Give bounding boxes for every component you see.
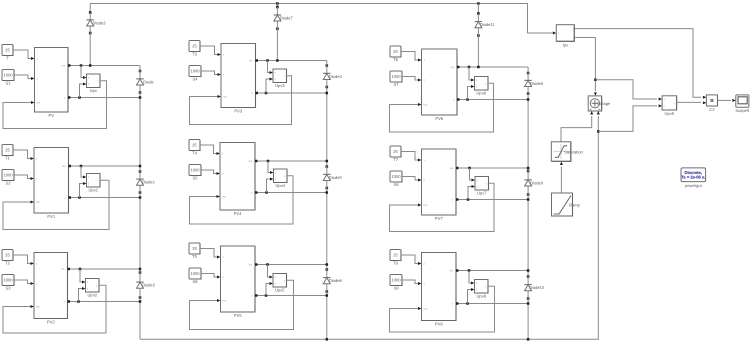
wire PV1 Vm output to bus xyxy=(69,165,141,167)
svg-text:S6: S6 xyxy=(192,279,198,284)
svg-text:Upv: Upv xyxy=(90,88,98,93)
wire e branch to Upv in2 xyxy=(80,84,86,98)
wire S2 to PV1 in2 xyxy=(14,175,33,179)
node bus col3 e2 junction xyxy=(527,198,530,201)
diode Diode6 xyxy=(323,268,342,293)
wire Vm branch to Upv4 in1 xyxy=(268,161,273,173)
svg-text:Diode6: Diode6 xyxy=(329,278,343,283)
svg-text:Ipv: Ipv xyxy=(563,43,569,48)
svg-text:PV5: PV5 xyxy=(234,313,242,318)
constant block T2 (25) xyxy=(2,250,13,266)
wire Vm branch to Upv7 in1 xyxy=(470,168,475,180)
node bus col2 e2 junction xyxy=(326,191,329,194)
node Ipv out2 branch junction xyxy=(594,78,597,81)
svg-text:1000: 1000 xyxy=(391,74,401,79)
PV subsystem PV3 xyxy=(221,44,256,114)
constant block S9 (1000) xyxy=(390,275,402,291)
wire string bus col3 segment 3 xyxy=(527,195,529,277)
diode Diode8 xyxy=(524,72,543,95)
node PV8 Vm port xyxy=(456,269,459,272)
wire e branch to Upv4 in2 xyxy=(267,179,273,193)
svg-text:Um: Um xyxy=(36,306,40,309)
node PV1 e branch xyxy=(78,196,81,199)
wire Diode7 top stub xyxy=(276,4,278,8)
svg-text:T5: T5 xyxy=(192,254,198,259)
wire Voltage bottom to bus junction xyxy=(597,116,599,131)
svg-text:1000: 1000 xyxy=(391,174,401,179)
wire Vm branch to Upv6 in1 xyxy=(469,67,474,80)
node PV6 e branch xyxy=(466,98,469,101)
svg-text:C2: C2 xyxy=(709,107,715,112)
wire e branch to Upv1 in2 xyxy=(80,184,86,198)
wire top positive bus to Ipv xyxy=(90,4,552,34)
node PV8 e port xyxy=(456,302,459,305)
constant block S4 (1000) xyxy=(189,66,201,82)
constant block S8 (1000) xyxy=(390,171,402,187)
node PV6 e port xyxy=(457,98,460,101)
node bus col1 e1 junction xyxy=(139,96,142,99)
subsystem Upv9 xyxy=(662,96,677,116)
current measurement subsystem Ipv xyxy=(556,25,575,48)
svg-text:T1: T1 xyxy=(5,156,11,161)
wire e branch to Upv5 in2 xyxy=(266,284,272,296)
svg-text:PV3: PV3 xyxy=(234,109,242,114)
svg-text:Scope5: Scope5 xyxy=(735,108,750,113)
svg-text:Vm: Vm xyxy=(62,165,66,168)
wire Upv5 output feedback to PV5 Um xyxy=(190,280,294,329)
diode Diode4 xyxy=(323,64,342,88)
wire T2 to PV2 in1 xyxy=(13,255,33,264)
svg-text:S8: S8 xyxy=(393,182,399,187)
wire PV e output to bus xyxy=(68,97,140,99)
constant block S6 (1000) xyxy=(189,268,201,284)
node bus col2 e1 junction xyxy=(326,92,329,95)
wire Vm branch to Upv3 in1 xyxy=(268,61,273,73)
svg-text:S2: S2 xyxy=(5,181,11,186)
PV subsystem PV5 xyxy=(221,246,256,318)
svg-text:25: 25 xyxy=(192,44,197,49)
wire PV8 Vm output to bus xyxy=(456,270,528,272)
wire branch to Upv9 in2 xyxy=(598,106,657,131)
svg-text:25: 25 xyxy=(192,246,197,251)
constant block S1 (1000) xyxy=(2,70,14,86)
wire Vm branch to Upv5 in1 xyxy=(268,265,273,278)
node PV3 e branch xyxy=(265,92,268,95)
node bus col1 vm2 junction xyxy=(139,165,142,168)
wire Saturation output to Voltage xyxy=(561,116,592,142)
measurement block Upv7 xyxy=(475,177,489,196)
wire e branch to Upv6 in2 xyxy=(468,87,474,100)
measurement block Upv6 xyxy=(475,77,489,96)
node PV6 Vm port xyxy=(457,66,460,69)
svg-text:1000: 1000 xyxy=(3,173,13,178)
wire Diode3 to PV Vm node xyxy=(89,33,91,66)
scope block Scope5 xyxy=(735,95,750,113)
constant block T7 (25) xyxy=(390,146,401,162)
node PV5 e port xyxy=(255,294,258,297)
node PV7 e branch xyxy=(467,198,470,201)
constant block T8 (25) xyxy=(390,250,401,266)
wire string bus col3 segment 2 xyxy=(527,94,529,172)
node bus col1 e3 junction xyxy=(139,300,142,303)
svg-text:25: 25 xyxy=(5,48,10,53)
wire Diode7 to PV3 Vm node xyxy=(276,29,278,61)
svg-text:Um: Um xyxy=(424,308,428,311)
wire string bus col1 segment 3 xyxy=(139,193,141,273)
constant block S5 (1000) xyxy=(189,165,201,181)
svg-text:Upv6: Upv6 xyxy=(476,90,486,95)
wire Upv9 output to C2 in2 xyxy=(677,101,701,103)
svg-text:S1: S1 xyxy=(5,81,11,86)
svg-text:1000: 1000 xyxy=(190,69,200,74)
svg-text:25: 25 xyxy=(393,253,398,258)
svg-text:Diode7: Diode7 xyxy=(280,16,294,21)
wire string bus col2 segment 2 xyxy=(326,87,328,167)
constant block T (25) xyxy=(2,45,13,61)
node bottom bus col3 junction xyxy=(527,338,530,341)
svg-text:1000: 1000 xyxy=(3,73,13,78)
node PV e port xyxy=(68,96,71,99)
node bus col3 e1 junction xyxy=(527,98,530,101)
svg-text:Um: Um xyxy=(424,104,428,107)
svg-text:Upv3: Upv3 xyxy=(275,83,285,88)
svg-text:Diode8: Diode8 xyxy=(530,81,544,86)
node bus col1 vm3 junction xyxy=(139,268,142,271)
saturation block Saturation xyxy=(551,142,583,162)
svg-text:S3: S3 xyxy=(5,286,11,291)
node Diode7 / Vm junction xyxy=(276,59,279,62)
wire PV2 e output to bus xyxy=(68,301,141,303)
constant block S2 (1000) xyxy=(2,170,14,186)
wire Upv4 output feedback to PV4 Um xyxy=(190,176,294,224)
svg-text:S7: S7 xyxy=(393,82,399,87)
node bus col3 vm2 junction xyxy=(527,167,530,170)
node PV5 Vm port xyxy=(255,263,258,266)
svg-text:Vm: Vm xyxy=(249,264,253,267)
svg-text:Upv1: Upv1 xyxy=(88,187,98,192)
svg-text:T7: T7 xyxy=(393,157,399,162)
svg-text:Um: Um xyxy=(223,300,227,303)
svg-text:Vm: Vm xyxy=(61,268,65,271)
wire e branch to Upv8 in2 xyxy=(468,290,474,304)
svg-text:Um: Um xyxy=(223,96,227,99)
wire PV5 e output to bus xyxy=(255,295,327,297)
wire Upv2 output feedback to PV2 Um xyxy=(3,285,106,333)
node PV6 Vm branch xyxy=(468,66,471,69)
wire T4 to PV4 in1 xyxy=(200,145,219,154)
diode Diode3 xyxy=(87,11,107,34)
svg-text:Upv5: Upv5 xyxy=(275,287,285,292)
wire PV7 Vm output to bus xyxy=(456,167,528,169)
svg-text:Upv4: Upv4 xyxy=(275,183,285,188)
wire Ipv out1 to C2 in1 xyxy=(574,29,701,98)
wire S5 to PV4 in2 xyxy=(201,170,219,174)
wire T to PV in1 xyxy=(13,50,34,59)
wire PV4 Vm output to bus xyxy=(255,160,327,162)
svg-text:25: 25 xyxy=(393,49,398,54)
wire string bus col1 segment 2 xyxy=(139,93,141,172)
svg-text:Vm: Vm xyxy=(450,167,454,170)
PV subsystem PV8 xyxy=(422,253,457,327)
node bus col3 e3 junction xyxy=(527,302,530,305)
svg-text:Vm: Vm xyxy=(249,160,253,163)
node PV5 Vm branch xyxy=(266,263,269,266)
node PV2 Vm port xyxy=(67,268,70,271)
svg-text:T2: T2 xyxy=(5,261,11,266)
node PV1 e port xyxy=(68,196,71,199)
svg-text:25: 25 xyxy=(192,143,197,148)
measurement block Upv8 xyxy=(475,280,489,299)
svg-text:Diode1: Diode1 xyxy=(142,180,156,185)
node PV2 Vm branch xyxy=(79,268,82,271)
wire S4 to PV3 in2 xyxy=(201,71,220,75)
wire Diode11 to PV6 Vm node xyxy=(477,36,479,68)
diode Diode1 xyxy=(136,170,155,194)
wire string bus col2 bottom segment xyxy=(326,292,328,340)
wire S9 to PV8 in2 xyxy=(402,280,421,284)
node PV8 e branch xyxy=(466,302,469,305)
svg-text:Upv2: Upv2 xyxy=(87,292,97,297)
node Diode3 / Vm junction xyxy=(89,64,92,67)
svg-text:PV7: PV7 xyxy=(435,216,443,221)
wire branch to Upv9 in1 xyxy=(595,80,657,99)
wire PV3 Vm output to bus xyxy=(256,60,327,62)
measurement block Upv1 xyxy=(87,174,101,193)
wire T6 to PV6 in1 xyxy=(401,52,421,61)
wire PV8 e output to bus xyxy=(456,303,528,305)
svg-text:Upv8: Upv8 xyxy=(476,293,486,298)
svg-text:Upv9: Upv9 xyxy=(665,111,675,116)
node Voltage / bus junction xyxy=(597,130,600,133)
node PV4 Vm branch xyxy=(267,160,270,163)
svg-text:Diode3: Diode3 xyxy=(93,21,107,26)
wire Ramp output to Saturation xyxy=(560,167,562,193)
wire S6 to PV5 in2 xyxy=(201,274,220,278)
wire Upv1 output feedback to PV1 Um xyxy=(3,180,109,229)
wire T5 to PV5 in1 xyxy=(200,249,220,258)
svg-text:Diode: Diode xyxy=(143,79,154,84)
svg-text:Diode2: Diode2 xyxy=(142,283,156,288)
PV subsystem PV2 xyxy=(34,253,68,325)
svg-text:Upv7: Upv7 xyxy=(477,190,487,195)
svg-text:Vm: Vm xyxy=(249,60,253,63)
wire Vm branch to Upv8 in1 xyxy=(469,271,474,284)
wire S1 to PV in2 xyxy=(14,75,34,79)
svg-text:Saturation: Saturation xyxy=(564,150,583,155)
wire string bus col3 bottom segment xyxy=(527,299,529,340)
wire PV4 e output to bus xyxy=(255,192,327,194)
wire e branch to Upv3 in2 xyxy=(266,79,272,93)
svg-text:25: 25 xyxy=(5,148,10,153)
wire PV6 e output to bus xyxy=(457,99,528,101)
powergui block xyxy=(681,168,706,188)
wire PV5 Vm output to bus xyxy=(255,264,327,266)
svg-text:1000: 1000 xyxy=(3,278,13,283)
wire PV6 Vm output to bus xyxy=(457,66,528,68)
constant block T4 (25) xyxy=(189,140,200,156)
svg-text:PV: PV xyxy=(49,113,55,118)
svg-text:Um: Um xyxy=(424,204,428,207)
wire string bus col3 top segment xyxy=(527,67,529,73)
wire PV7 e output to bus xyxy=(456,199,528,201)
svg-text:PV1: PV1 xyxy=(47,214,55,219)
diode Diode10 xyxy=(524,275,545,300)
diode Diode9 xyxy=(524,170,543,196)
svg-text:PV6: PV6 xyxy=(435,116,443,121)
wire S8 to PV7 in2 xyxy=(402,177,421,181)
node PV2 e port xyxy=(67,300,70,303)
node PV Vm port xyxy=(68,64,71,67)
node bus col2 e3 junction xyxy=(326,294,329,297)
svg-text:25: 25 xyxy=(393,149,398,154)
diode Diode7 xyxy=(274,6,294,30)
wire e branch to Upv7 in2 xyxy=(468,187,474,200)
wire S3 to PV2 in2 xyxy=(14,280,33,284)
svg-text:Ts = 2e-05 s.: Ts = 2e-05 s. xyxy=(681,175,705,180)
diode Diode xyxy=(136,70,154,94)
wire Diode11 top stub xyxy=(477,4,479,14)
svg-text:PV4: PV4 xyxy=(234,211,242,216)
svg-text:PV8: PV8 xyxy=(435,322,443,327)
svg-text:Vm: Vm xyxy=(451,66,455,69)
svg-text:S5: S5 xyxy=(192,176,198,181)
svg-text:T8: T8 xyxy=(393,261,399,266)
diode Diode11 xyxy=(475,12,496,37)
node PV3 Vm branch xyxy=(266,59,269,62)
node PV4 e branch xyxy=(265,191,268,194)
constant block S7 (1000) xyxy=(390,71,402,87)
PV subsystem PV7 xyxy=(422,149,457,221)
node PV7 Vm port xyxy=(456,167,459,170)
svg-text:Um: Um xyxy=(37,102,41,105)
svg-text:25: 25 xyxy=(5,253,10,258)
diode Diode2 xyxy=(136,271,155,299)
svg-text:Diode4: Diode4 xyxy=(329,74,343,79)
wire PV Vm output to bus xyxy=(68,65,140,67)
measurement block Upv xyxy=(87,74,101,93)
svg-text:Voltage: Voltage xyxy=(597,101,611,106)
node PV1 Vm branch xyxy=(80,165,83,168)
node PV7 e port xyxy=(456,198,459,201)
node PV7 Vm branch xyxy=(468,167,471,170)
node top bus col2 junction xyxy=(276,2,279,5)
ramp source block Ramp xyxy=(552,193,581,216)
wire PV1 e output to bus xyxy=(69,197,141,199)
constant block T5 (25) xyxy=(189,243,200,259)
wire string bus col1 top segment xyxy=(139,66,141,72)
wire string bus col1 bottom segment xyxy=(139,298,141,340)
node PV5 e branch xyxy=(265,294,268,297)
wire Vm branch to Upv in1 xyxy=(81,66,86,78)
product block C2 xyxy=(706,95,717,112)
wire PV2 Vm output to bus xyxy=(68,268,141,270)
wire S7 to PV6 in2 xyxy=(402,77,421,81)
measurement block Upv3 xyxy=(273,69,287,88)
svg-text:T4: T4 xyxy=(192,151,198,156)
node top bus col3 junction xyxy=(477,2,480,5)
wire Ipv out2 down to Voltage xyxy=(574,38,595,92)
node PV4 Vm port xyxy=(255,160,258,163)
node PV3 Vm port xyxy=(255,59,258,62)
svg-text:1000: 1000 xyxy=(190,168,200,173)
PV subsystem PV1 xyxy=(34,148,69,220)
voltage source block Voltage xyxy=(588,96,611,111)
node PV e branch xyxy=(78,96,81,99)
svg-text:1000: 1000 xyxy=(391,278,401,283)
svg-text:T6: T6 xyxy=(393,57,399,62)
PV subsystem PV xyxy=(35,48,69,119)
measurement block Upv4 xyxy=(274,169,288,188)
wire C2 output to Scope5 xyxy=(718,99,732,101)
wire Vm branch to Upv2 in1 xyxy=(80,269,85,282)
wire string bus col2 top segment xyxy=(326,61,328,66)
wire Upv3 output feedback to PV3 Um xyxy=(190,76,292,125)
svg-text:Diode11: Diode11 xyxy=(480,22,496,27)
node PV3 e port xyxy=(255,92,258,95)
node bus col1 e2 junction xyxy=(139,196,142,199)
svg-text:powergui: powergui xyxy=(685,183,702,188)
svg-text:Diode10: Diode10 xyxy=(529,285,545,290)
svg-text:Vm: Vm xyxy=(450,270,454,273)
svg-text:T3: T3 xyxy=(192,52,198,57)
svg-text:Um: Um xyxy=(36,201,40,204)
measurement block Upv2 xyxy=(86,279,100,298)
svg-text:PV2: PV2 xyxy=(47,320,55,325)
wire Upv8 output feedback to PV8 Um xyxy=(390,286,495,332)
wire Diode3 top stub xyxy=(89,4,91,13)
node PV1 Vm port xyxy=(68,165,71,168)
svg-text:Vm: Vm xyxy=(62,65,66,68)
svg-text:Um: Um xyxy=(222,196,226,199)
wire Upv7 output feedback to PV7 Um xyxy=(390,183,495,231)
constant block T1 (25) xyxy=(2,145,13,161)
PV subsystem PV6 xyxy=(422,49,458,121)
constant block T3 (25) xyxy=(189,41,200,57)
node PV2 e branch xyxy=(77,300,80,303)
node PV Vm branch xyxy=(80,64,83,67)
PV subsystem PV4 xyxy=(220,143,255,217)
node PV4 e port xyxy=(255,191,258,194)
measurement block Upv5 xyxy=(273,274,287,293)
svg-text:S4: S4 xyxy=(192,77,198,82)
diode Diode5 xyxy=(323,165,342,189)
wire T8 to PV8 in1 xyxy=(401,255,421,264)
svg-text:S9: S9 xyxy=(393,286,399,291)
svg-text:Ramp: Ramp xyxy=(569,203,581,208)
svg-text:Diode9: Diode9 xyxy=(530,180,544,185)
node Diode11 / Vm junction xyxy=(477,66,480,69)
node bus col3 vm3 junction xyxy=(527,269,530,272)
svg-text:1000: 1000 xyxy=(190,271,200,276)
node bottom bus col2 junction xyxy=(326,338,329,341)
constant block T6 (25) xyxy=(390,46,401,62)
node PV8 Vm branch xyxy=(468,269,471,272)
wire string bus col2 segment 3 xyxy=(326,188,328,270)
wire PV3 e output to bus xyxy=(256,92,327,94)
svg-text:Diode5: Diode5 xyxy=(329,175,343,180)
wire T3 to PV3 in1 xyxy=(200,46,220,55)
wire bottom negative bus xyxy=(140,131,598,339)
constant block S3 (1000) xyxy=(2,275,14,291)
wire Upv output feedback to PV Um xyxy=(3,81,107,129)
wire e branch to Upv2 in2 xyxy=(79,289,85,302)
wire Upv6 output feedback to PV6 Um xyxy=(390,83,494,132)
wire T1 to PV1 in1 xyxy=(13,150,33,159)
node bus col2 vm2 junction xyxy=(326,160,329,163)
node bus col2 vm3 junction xyxy=(326,263,329,266)
wire Vm branch to Upv1 in1 xyxy=(81,166,86,177)
wire T7 to PV7 in1 xyxy=(401,152,421,161)
